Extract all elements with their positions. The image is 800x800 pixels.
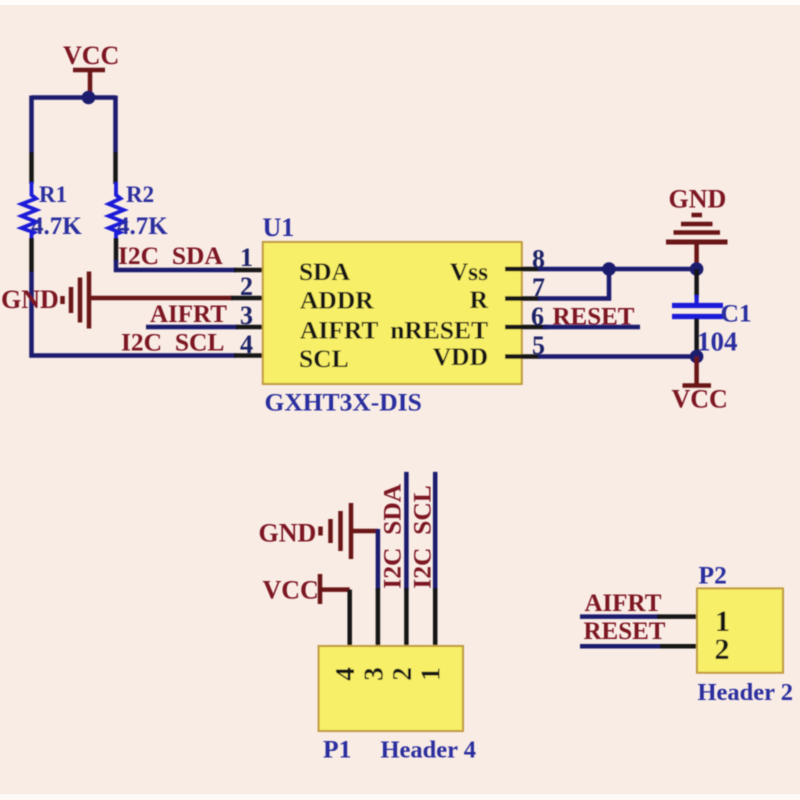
power symbol VCC (right) [672, 357, 728, 414]
svg-text:2: 2 [715, 633, 730, 666]
svg-text:AIFRT: AIFRT [585, 590, 662, 617]
svg-text:VCC: VCC [263, 576, 319, 605]
P2 pin 2 stub [660, 644, 703, 649]
pin 1 stub [234, 268, 277, 273]
connector P2 body [697, 588, 783, 672]
svg-text:1: 1 [416, 667, 446, 681]
svg-text:P1: P1 [323, 735, 351, 764]
P1 pin 3 stub [376, 588, 381, 651]
power symbol VCC (bottom, P1) [263, 574, 350, 605]
junction node at VDD net [690, 350, 704, 364]
svg-text:1: 1 [240, 243, 253, 272]
svg-text:AIFRT: AIFRT [150, 301, 227, 328]
pin 8 stub [505, 267, 540, 272]
P1 pin 2 stub [404, 588, 409, 651]
wire: GND to P1 pin 3 (maroon) [351, 529, 378, 534]
svg-text:3: 3 [358, 667, 388, 681]
svg-text:I2C SCL: I2C SCL [408, 485, 437, 588]
svg-text:R: R [470, 285, 489, 314]
junction node at VCC [82, 91, 96, 105]
svg-text:2: 2 [387, 667, 417, 681]
op IC U1 body [263, 213, 522, 417]
svg-text:4.7K: 4.7K [31, 213, 82, 240]
svg-text:4: 4 [240, 330, 253, 359]
svg-text:R2: R2 [126, 182, 154, 207]
svg-text:3: 3 [240, 301, 253, 330]
svg-text:104: 104 [697, 327, 738, 357]
P2 pin 1 stub [657, 614, 703, 619]
wire: Vss to GND net [538, 267, 697, 272]
pin 4 stub [234, 353, 277, 358]
svg-text:I2C SCL: I2C SCL [121, 328, 224, 357]
svg-text:Header 2: Header 2 [698, 679, 794, 706]
junction node at C1 top net [690, 262, 704, 276]
wire: C1 bottom plate to node [694, 319, 699, 357]
connector P1 body [319, 646, 463, 731]
svg-text:VDD: VDD [433, 342, 488, 371]
svg-text:ADDR: ADDR [300, 286, 374, 315]
svg-text:GND: GND [259, 519, 317, 548]
junction node Vss/R [602, 262, 616, 276]
svg-text:C1: C1 [721, 299, 752, 328]
wire: P1 pin3 net vertical [376, 529, 381, 590]
svg-text:4: 4 [330, 667, 360, 681]
svg-text:I2C SDA: I2C SDA [118, 241, 223, 270]
wire: RESET net under label [543, 325, 640, 330]
P1 pin 4 stub [347, 590, 352, 651]
svg-text:nRESET: nRESET [390, 316, 488, 345]
wire: GND to ADDR pin (maroon) [89, 296, 233, 301]
pin 5 stub [505, 354, 540, 359]
wire: left vertical lower to SCL row [32, 272, 237, 356]
wire: VDD to VCC net [538, 354, 697, 359]
wire: AIFRT net under label [146, 325, 238, 330]
svg-text:Vss: Vss [450, 257, 488, 286]
wire: R1 bottom pin [29, 238, 34, 272]
wire: P1 pin2 net vertical [404, 472, 409, 590]
svg-text:Header 4: Header 4 [381, 737, 477, 764]
pin 7 stub [505, 296, 540, 301]
pin 2 stub [231, 296, 277, 301]
svg-text:6: 6 [531, 302, 544, 331]
svg-text:I2C SDA: I2C SDA [378, 483, 407, 588]
wire: R2 to SDA pin row [116, 260, 236, 270]
svg-text:SDA: SDA [299, 257, 351, 286]
svg-text:AIFRT: AIFRT [300, 316, 378, 345]
svg-text:SCL: SCL [299, 344, 349, 373]
svg-text:4.7K: 4.7K [117, 213, 168, 240]
wire: node to C1 top plate [694, 269, 699, 297]
svg-text:GXHT3X-DIS: GXHT3X-DIS [265, 388, 422, 417]
wire: top horizontal from R1 to R2 [32, 95, 116, 100]
resistor R1 [22, 182, 83, 240]
power symbol VCC (top left) [63, 41, 119, 92]
wire: R1 top pin [29, 152, 34, 184]
svg-text:GND: GND [669, 185, 727, 214]
svg-text:U1: U1 [263, 213, 295, 242]
wire: AIFRT net under label [580, 614, 659, 619]
svg-text:VCC: VCC [63, 41, 119, 70]
svg-text:GND: GND [1, 285, 59, 314]
wire: R pin up to Vss net [538, 267, 609, 299]
ground GND (bottom, P1) [259, 503, 352, 559]
svg-text:R1: R1 [39, 182, 67, 207]
pin 6 stub [505, 325, 548, 330]
svg-text:RESET: RESET [584, 618, 666, 645]
wire: left vertical upper (to R1) [29, 96, 34, 153]
P1 pin 1 stub [433, 588, 438, 651]
svg-text:VCC: VCC [672, 385, 728, 414]
pin 3 stub [236, 325, 277, 330]
capacitor C1 [672, 295, 752, 357]
wire: right vertical upper (to R2) [113, 96, 118, 153]
ground GND (top right) [666, 185, 728, 243]
wire: R2 bottom pin [114, 238, 119, 262]
wire: RESET net under label [580, 644, 662, 649]
wire: P1 pin1 net vertical [433, 472, 438, 590]
svg-text:P2: P2 [699, 560, 727, 589]
ground GND (left) [1, 272, 89, 329]
resistor R2 [109, 182, 169, 240]
wire: GND stem to node (maroon) [694, 242, 699, 266]
svg-text:2: 2 [240, 272, 253, 301]
wire: R2 top pin [113, 152, 118, 184]
